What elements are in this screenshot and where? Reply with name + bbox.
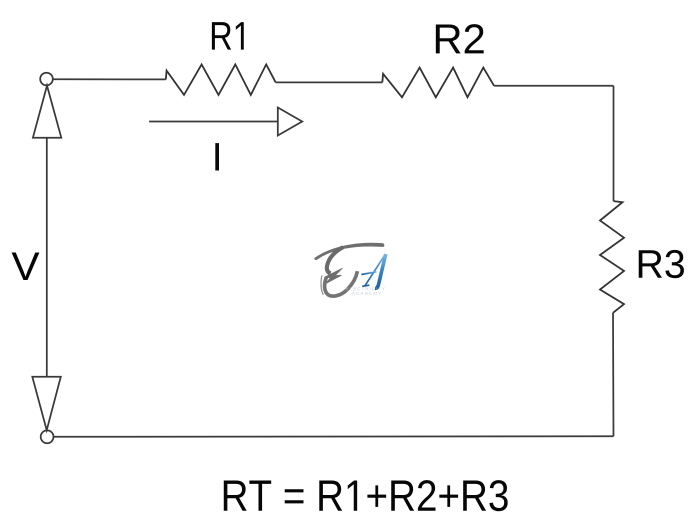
watermark logo: script E (gray) top swash xyxy=(315,243,384,259)
label R2 xyxy=(436,24,484,53)
watermark logo: script E left ribbon edge xyxy=(321,276,323,295)
current arrow I: open arrowhead xyxy=(278,108,302,136)
node: top-left terminal xyxy=(40,73,53,86)
watermark logo: italic A left leg xyxy=(362,255,385,286)
voltage source V: lower arrowhead (down) xyxy=(32,377,61,431)
watermark logo: script E stem xyxy=(327,247,343,273)
node: bottom-left terminal xyxy=(41,430,54,443)
resistor R1 xyxy=(166,64,276,95)
watermark logo: tiny text line 1 xyxy=(346,287,385,290)
current arrow I: shaft xyxy=(149,121,278,123)
wire: top-left node to R1 xyxy=(53,78,166,80)
watermark logo: script E middle chevron xyxy=(325,268,343,283)
wire: right vertical lower xyxy=(612,313,615,437)
resistor R3 xyxy=(600,201,624,313)
watermark logo: italic A (blue) right leg xyxy=(375,254,386,288)
wire: bottom return xyxy=(54,435,614,438)
watermark logo: script E bottom loop xyxy=(325,271,358,296)
label V xyxy=(12,252,40,280)
wire: right vertical upper xyxy=(613,86,615,201)
watermark logo: italic A crossbar xyxy=(361,272,376,275)
voltage source V: upper arrowhead (up) xyxy=(33,86,61,138)
wire: R2 to top-right corner xyxy=(494,85,613,87)
wire: R1 to R2 xyxy=(276,81,383,83)
label R1 xyxy=(212,22,244,50)
wire: voltage source stem xyxy=(46,138,48,377)
label I xyxy=(215,143,219,170)
watermark logo: tiny text line 2 xyxy=(352,292,381,295)
label R3 xyxy=(639,250,684,278)
formula RT = R1+R2+R3 xyxy=(224,480,508,511)
resistor R2 xyxy=(382,68,494,98)
